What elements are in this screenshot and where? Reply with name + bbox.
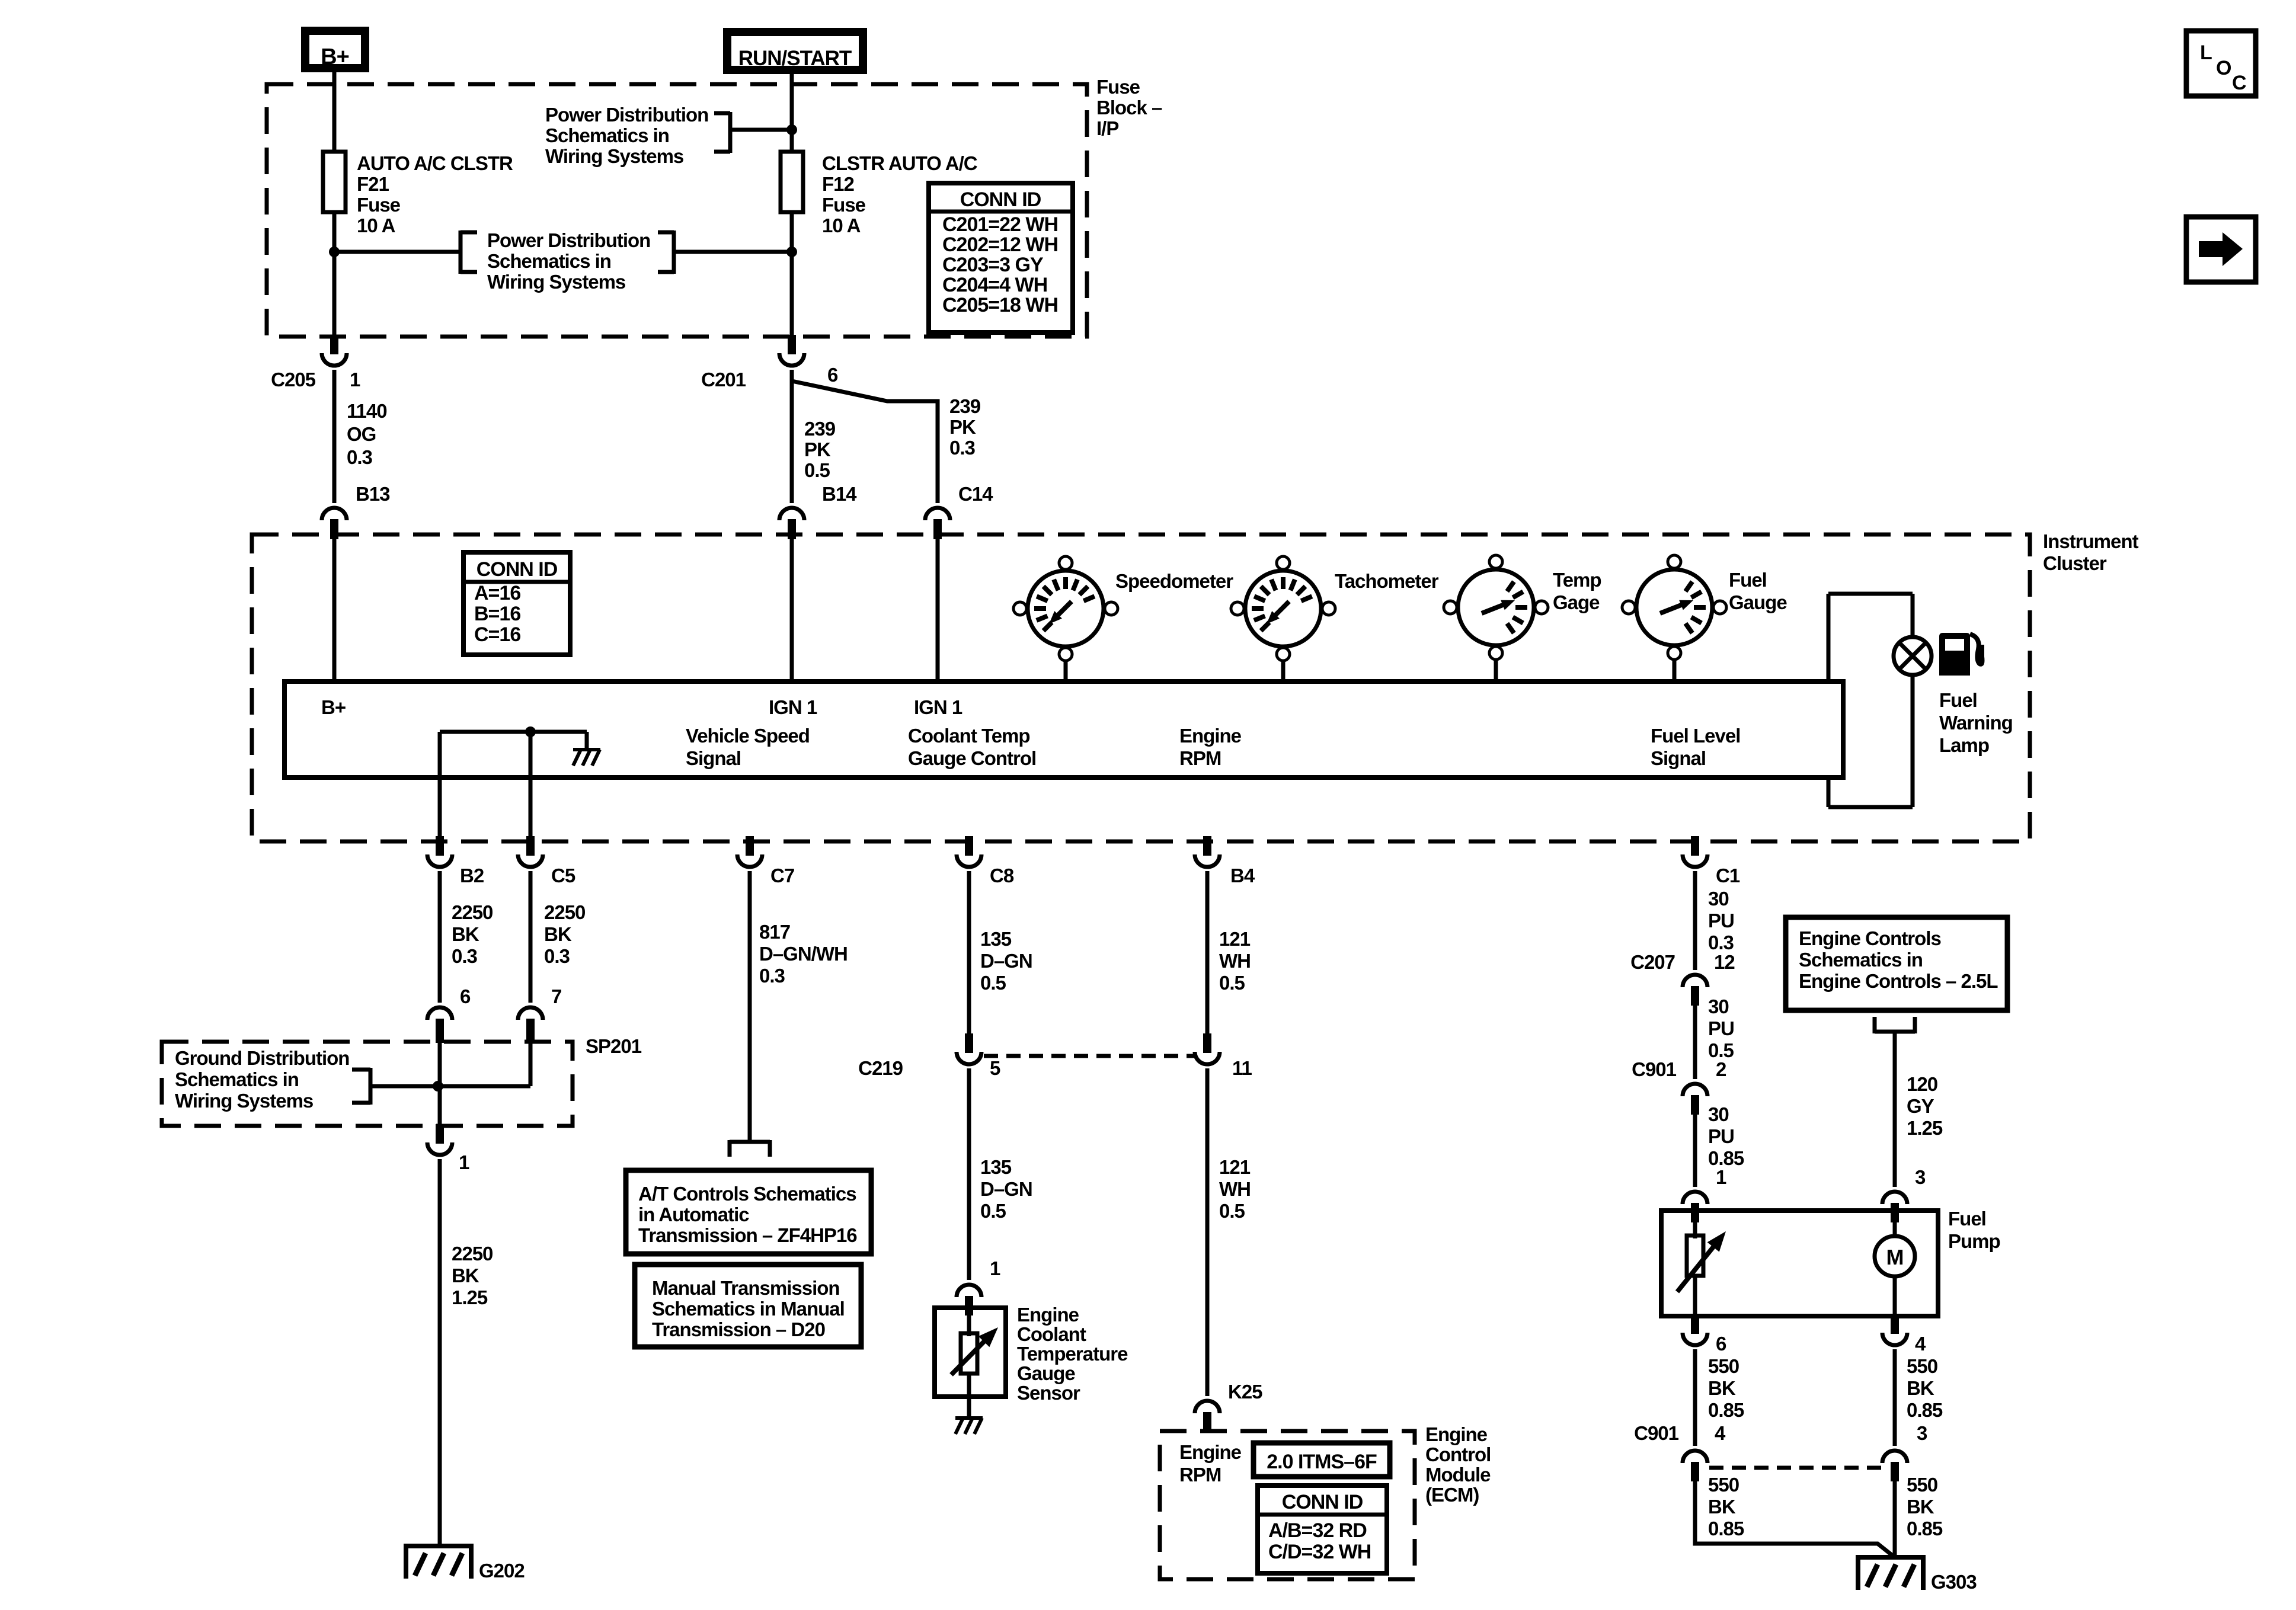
svg-text:550: 550 xyxy=(1708,1474,1739,1496)
svg-text:BK: BK xyxy=(1907,1496,1934,1518)
svg-text:1: 1 xyxy=(1716,1166,1726,1188)
svg-text:D–GN/WH: D–GN/WH xyxy=(759,943,848,965)
svg-text:C14: C14 xyxy=(958,483,993,505)
svg-text:Warning: Warning xyxy=(1939,712,2013,734)
svg-text:Engine: Engine xyxy=(1017,1304,1079,1326)
svg-text:0.3: 0.3 xyxy=(544,945,570,967)
svg-text:C219: C219 xyxy=(858,1057,903,1079)
svg-text:GY: GY xyxy=(1907,1095,1934,1117)
svg-text:239: 239 xyxy=(804,418,836,440)
svg-text:O: O xyxy=(2216,57,2231,79)
svg-text:C: C xyxy=(2232,72,2246,94)
svg-text:7: 7 xyxy=(551,985,561,1007)
svg-text:Schematics in: Schematics in xyxy=(487,250,611,272)
svg-text:Engine: Engine xyxy=(1179,1441,1242,1463)
svg-text:Fuel Level: Fuel Level xyxy=(1651,725,1740,747)
svg-text:D–GN: D–GN xyxy=(980,1178,1032,1200)
svg-text:1.25: 1.25 xyxy=(1907,1117,1943,1139)
svg-text:AUTO A/C CLSTR: AUTO A/C CLSTR xyxy=(357,152,513,174)
svg-text:C201=22 WH: C201=22 WH xyxy=(942,213,1058,236)
svg-text:Wiring Systems: Wiring Systems xyxy=(175,1090,313,1112)
svg-text:0.85: 0.85 xyxy=(1708,1147,1744,1169)
svg-text:550: 550 xyxy=(1907,1355,1937,1377)
svg-text:239: 239 xyxy=(949,395,981,417)
svg-text:Schematics in: Schematics in xyxy=(1799,949,1923,971)
svg-text:I/P: I/P xyxy=(1096,117,1118,139)
svg-text:0.3: 0.3 xyxy=(1708,932,1734,953)
svg-text:Gauge Control: Gauge Control xyxy=(908,747,1036,769)
svg-text:BK: BK xyxy=(1708,1377,1736,1399)
svg-text:PU: PU xyxy=(1708,910,1734,932)
svg-text:C5: C5 xyxy=(551,865,575,886)
svg-text:Fuse: Fuse xyxy=(1096,76,1140,98)
svg-text:1140: 1140 xyxy=(347,400,387,422)
svg-text:Wiring Systems: Wiring Systems xyxy=(545,145,683,167)
svg-text:C8: C8 xyxy=(990,865,1014,886)
svg-text:B=16: B=16 xyxy=(474,603,520,625)
svg-text:3: 3 xyxy=(1917,1422,1927,1444)
svg-text:Cluster: Cluster xyxy=(2043,552,2107,574)
svg-text:C204=4 WH: C204=4 WH xyxy=(942,274,1047,296)
svg-text:BK: BK xyxy=(1708,1496,1736,1518)
svg-text:C205=18 WH: C205=18 WH xyxy=(942,294,1058,316)
svg-text:Schematics in: Schematics in xyxy=(545,124,669,146)
svg-text:Gauge: Gauge xyxy=(1017,1362,1075,1384)
svg-text:2250: 2250 xyxy=(452,901,493,923)
svg-text:Temp: Temp xyxy=(1553,569,1601,591)
svg-text:Fuel: Fuel xyxy=(1939,689,1977,711)
svg-text:D–GN: D–GN xyxy=(980,950,1032,972)
svg-text:Wiring Systems: Wiring Systems xyxy=(487,271,625,293)
svg-text:Power Distribution: Power Distribution xyxy=(487,229,650,251)
svg-text:0.85: 0.85 xyxy=(1708,1399,1744,1421)
svg-text:WH: WH xyxy=(1219,950,1251,972)
svg-text:PK: PK xyxy=(804,438,831,460)
svg-text:0.5: 0.5 xyxy=(1219,972,1245,994)
svg-text:A/T Controls Schematics: A/T Controls Schematics xyxy=(638,1183,856,1205)
svg-text:3: 3 xyxy=(1915,1166,1926,1188)
svg-text:BK: BK xyxy=(452,1265,479,1286)
svg-text:Engine: Engine xyxy=(1425,1423,1488,1445)
svg-text:C7: C7 xyxy=(770,865,794,886)
svg-text:F12: F12 xyxy=(822,173,855,195)
svg-text:550: 550 xyxy=(1907,1474,1937,1496)
svg-text:PU: PU xyxy=(1708,1017,1734,1039)
svg-text:C/D=32 WH: C/D=32 WH xyxy=(1268,1541,1371,1563)
svg-text:C205: C205 xyxy=(271,369,316,391)
svg-text:Schematics in Manual: Schematics in Manual xyxy=(652,1298,845,1320)
svg-text:Pump: Pump xyxy=(1948,1230,2000,1252)
svg-text:Gage: Gage xyxy=(1553,591,1600,613)
svg-text:6: 6 xyxy=(827,364,838,386)
svg-text:A=16: A=16 xyxy=(474,582,520,604)
svg-text:CLSTR AUTO A/C: CLSTR AUTO A/C xyxy=(822,152,977,174)
svg-text:4: 4 xyxy=(1715,1422,1726,1444)
svg-text:C901: C901 xyxy=(1632,1058,1677,1080)
svg-text:1: 1 xyxy=(459,1151,469,1173)
svg-text:G303: G303 xyxy=(1931,1571,1977,1593)
svg-text:Fuel: Fuel xyxy=(1948,1208,1986,1230)
svg-text:Engine Controls – 2.5L: Engine Controls – 2.5L xyxy=(1799,970,1998,992)
svg-text:Fuel: Fuel xyxy=(1729,569,1767,591)
svg-text:Tachometer: Tachometer xyxy=(1335,570,1439,592)
svg-text:SP201: SP201 xyxy=(586,1035,642,1057)
svg-text:Ground Distribution: Ground Distribution xyxy=(175,1047,349,1069)
svg-text:C202=12 WH: C202=12 WH xyxy=(942,233,1058,256)
svg-text:PU: PU xyxy=(1708,1125,1734,1147)
svg-text:0.85: 0.85 xyxy=(1907,1399,1943,1421)
svg-text:Coolant: Coolant xyxy=(1017,1323,1086,1345)
svg-text:Engine Controls: Engine Controls xyxy=(1799,927,1941,949)
svg-text:0.85: 0.85 xyxy=(1907,1518,1943,1539)
svg-text:Transmission – D20: Transmission – D20 xyxy=(652,1318,825,1340)
svg-text:M: M xyxy=(1886,1245,1904,1269)
svg-text:1: 1 xyxy=(350,369,360,391)
svg-text:Gauge: Gauge xyxy=(1729,591,1787,613)
svg-text:135: 135 xyxy=(980,928,1012,950)
svg-text:Lamp: Lamp xyxy=(1939,734,1989,756)
svg-text:A/B=32 RD: A/B=32 RD xyxy=(1268,1519,1367,1542)
svg-text:B4: B4 xyxy=(1230,865,1255,886)
svg-text:0.5: 0.5 xyxy=(1219,1200,1245,1222)
svg-text:0.3: 0.3 xyxy=(949,437,976,459)
svg-text:Signal: Signal xyxy=(1651,747,1706,769)
svg-text:Control: Control xyxy=(1425,1443,1491,1465)
svg-text:IGN 1: IGN 1 xyxy=(769,696,817,718)
svg-text:6: 6 xyxy=(460,985,471,1007)
svg-text:BK: BK xyxy=(544,923,572,945)
svg-text:Manual Transmission: Manual Transmission xyxy=(652,1277,840,1299)
svg-text:Signal: Signal xyxy=(686,747,741,769)
svg-text:121: 121 xyxy=(1219,1156,1251,1178)
svg-text:Fuse: Fuse xyxy=(357,194,401,216)
svg-text:11: 11 xyxy=(1232,1057,1252,1079)
svg-text:CONN ID: CONN ID xyxy=(1282,1491,1363,1513)
svg-text:CONN ID: CONN ID xyxy=(477,558,558,581)
svg-text:OG: OG xyxy=(347,423,376,445)
svg-text:RPM: RPM xyxy=(1179,1464,1221,1486)
svg-text:C901: C901 xyxy=(1634,1422,1679,1444)
svg-text:B2: B2 xyxy=(460,865,484,886)
svg-text:Speedometer: Speedometer xyxy=(1115,570,1233,592)
svg-text:B13: B13 xyxy=(356,483,390,505)
svg-text:C201: C201 xyxy=(701,369,746,391)
svg-text:Vehicle Speed: Vehicle Speed xyxy=(686,725,810,747)
svg-text:2250: 2250 xyxy=(452,1243,493,1265)
svg-text:30: 30 xyxy=(1708,996,1729,1017)
svg-text:WH: WH xyxy=(1219,1178,1251,1200)
svg-text:RUN/START: RUN/START xyxy=(738,47,852,70)
svg-text:135: 135 xyxy=(980,1156,1012,1178)
svg-text:0.3: 0.3 xyxy=(452,945,478,967)
svg-text:Fuse: Fuse xyxy=(822,194,866,216)
svg-text:F21: F21 xyxy=(357,173,389,195)
svg-text:817: 817 xyxy=(759,921,790,943)
svg-text:0.3: 0.3 xyxy=(347,446,373,468)
svg-text:C207: C207 xyxy=(1630,951,1675,973)
svg-text:K25: K25 xyxy=(1228,1381,1262,1403)
svg-text:0.5: 0.5 xyxy=(980,1200,1006,1222)
svg-text:10 A: 10 A xyxy=(822,215,861,236)
svg-text:Transmission – ZF4HP16: Transmission – ZF4HP16 xyxy=(638,1224,857,1246)
svg-text:B14: B14 xyxy=(822,483,857,505)
svg-text:Sensor: Sensor xyxy=(1017,1382,1080,1404)
svg-text:CONN ID: CONN ID xyxy=(960,188,1041,211)
svg-text:30: 30 xyxy=(1708,1103,1729,1125)
svg-text:C=16: C=16 xyxy=(474,623,520,646)
svg-text:550: 550 xyxy=(1708,1355,1739,1377)
svg-text:2250: 2250 xyxy=(544,901,585,923)
svg-text:BK: BK xyxy=(452,923,479,945)
svg-text:BK: BK xyxy=(1907,1377,1934,1399)
svg-text:B+: B+ xyxy=(321,696,346,718)
svg-text:Schematics in: Schematics in xyxy=(175,1068,299,1090)
svg-text:Instrument: Instrument xyxy=(2043,530,2139,552)
svg-text:B+: B+ xyxy=(321,44,349,69)
svg-text:0.85: 0.85 xyxy=(1708,1518,1744,1539)
svg-text:0.5: 0.5 xyxy=(980,972,1006,994)
svg-text:RPM: RPM xyxy=(1179,747,1221,769)
svg-text:(ECM): (ECM) xyxy=(1425,1484,1479,1506)
svg-text:Module: Module xyxy=(1425,1464,1491,1486)
svg-text:PK: PK xyxy=(949,416,976,438)
svg-text:120: 120 xyxy=(1907,1073,1937,1095)
svg-text:Engine: Engine xyxy=(1179,725,1242,747)
svg-text:Block –: Block – xyxy=(1096,97,1162,119)
svg-text:5: 5 xyxy=(990,1057,1000,1079)
svg-text:L: L xyxy=(2200,41,2212,64)
svg-text:0.5: 0.5 xyxy=(804,459,830,481)
svg-text:Power Distribution: Power Distribution xyxy=(545,104,708,126)
svg-text:12: 12 xyxy=(1714,951,1735,973)
svg-text:G202: G202 xyxy=(479,1560,525,1582)
svg-text:10 A: 10 A xyxy=(357,215,395,236)
svg-text:2.0 ITMS–6F: 2.0 ITMS–6F xyxy=(1267,1451,1377,1473)
svg-text:IGN 1: IGN 1 xyxy=(914,696,962,718)
svg-text:1: 1 xyxy=(990,1257,1000,1279)
svg-text:4: 4 xyxy=(1915,1333,1926,1355)
svg-text:121: 121 xyxy=(1219,928,1251,950)
svg-text:C203=3 GY: C203=3 GY xyxy=(942,254,1044,276)
svg-text:2: 2 xyxy=(1716,1058,1726,1080)
svg-text:1.25: 1.25 xyxy=(452,1286,488,1308)
svg-text:Temperature: Temperature xyxy=(1017,1343,1128,1365)
svg-text:in Automatic: in Automatic xyxy=(638,1204,749,1225)
svg-text:Coolant Temp: Coolant Temp xyxy=(908,725,1030,747)
svg-text:C1: C1 xyxy=(1716,865,1740,886)
svg-text:30: 30 xyxy=(1708,888,1729,910)
svg-text:0.3: 0.3 xyxy=(759,965,785,987)
svg-text:6: 6 xyxy=(1716,1333,1726,1355)
